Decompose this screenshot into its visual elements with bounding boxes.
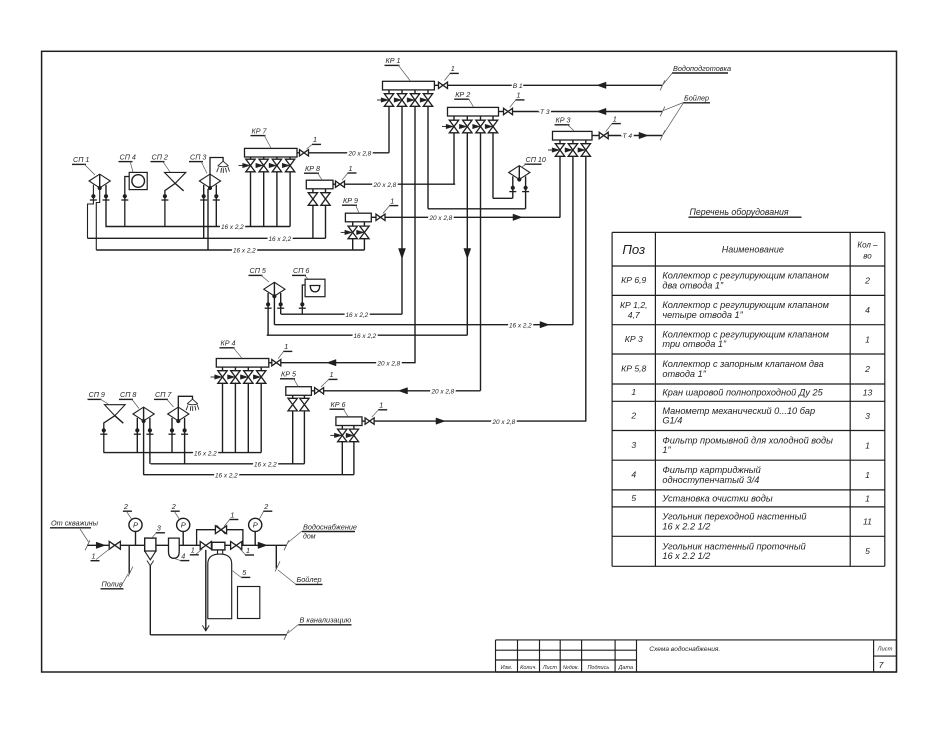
svg-text:Полив: Полив xyxy=(102,580,123,589)
svg-text:Кран шаровой полнопроходной Ду: Кран шаровой полнопроходной Ду 25 xyxy=(662,388,823,398)
svg-text:1: 1 xyxy=(230,510,234,519)
svg-text:1: 1 xyxy=(191,546,195,555)
svg-text:От скважины: От скважины xyxy=(51,519,99,528)
svg-text:№док.: №док. xyxy=(563,665,579,671)
svg-text:КР 8: КР 8 xyxy=(305,164,320,173)
svg-text:два отвода 1”: два отвода 1” xyxy=(662,281,724,291)
svg-text:3: 3 xyxy=(157,524,161,533)
svg-text:КР 3: КР 3 xyxy=(556,116,571,125)
svg-text:1: 1 xyxy=(390,196,394,205)
svg-text:13: 13 xyxy=(863,388,873,398)
svg-text:16 х 2,2: 16 х 2,2 xyxy=(215,472,238,479)
svg-text:1: 1 xyxy=(284,342,288,351)
svg-text:3: 3 xyxy=(631,440,636,450)
svg-text:СП 4: СП 4 xyxy=(120,152,136,161)
svg-text:P: P xyxy=(253,521,258,530)
svg-text:КР 6: КР 6 xyxy=(331,400,346,409)
svg-text:Изм.: Изм. xyxy=(501,665,513,671)
svg-text:1: 1 xyxy=(379,401,383,410)
svg-text:16 х 2.2 1/2: 16 х 2.2 1/2 xyxy=(662,551,710,561)
svg-text:4: 4 xyxy=(181,551,185,560)
svg-text:16 х 2.2 1/2: 16 х 2.2 1/2 xyxy=(662,521,710,531)
svg-text:4,7: 4,7 xyxy=(628,310,641,320)
svg-text:Т 3: Т 3 xyxy=(540,109,550,116)
svg-text:Установка очистки воды: Установка очистки воды xyxy=(661,493,772,503)
svg-text:КР 7: КР 7 xyxy=(252,126,268,135)
svg-text:1: 1 xyxy=(451,64,455,73)
svg-text:2: 2 xyxy=(864,364,870,374)
svg-text:P: P xyxy=(133,521,138,530)
svg-text:20 х 2,8: 20 х 2,8 xyxy=(429,215,453,222)
svg-text:5: 5 xyxy=(865,546,870,556)
svg-text:СП 7: СП 7 xyxy=(155,390,172,399)
svg-text:Коллектор с запорным клапаном: Коллектор с запорным клапаном два xyxy=(662,359,823,369)
svg-text:4: 4 xyxy=(631,469,636,479)
svg-text:Фильтр промывной для холодной: Фильтр промывной для холодной воды xyxy=(662,435,833,445)
svg-text:Подпись: Подпись xyxy=(587,665,609,671)
svg-text:P: P xyxy=(181,521,186,530)
svg-text:1: 1 xyxy=(517,91,521,100)
svg-text:2: 2 xyxy=(263,502,268,511)
svg-text:Угольник переходной настенный: Угольник переходной настенный xyxy=(661,512,806,522)
svg-text:1: 1 xyxy=(349,164,353,173)
svg-text:Угольник настенный проточный: Угольник настенный проточный xyxy=(661,541,805,551)
svg-text:одноступенчатый 3/4: одноступенчатый 3/4 xyxy=(662,475,759,485)
svg-text:Фильтр картриджный: Фильтр картриджный xyxy=(662,465,760,475)
svg-text:1: 1 xyxy=(631,387,636,397)
svg-text:дом: дом xyxy=(303,533,316,541)
svg-text:1: 1 xyxy=(865,334,870,344)
svg-text:Схема водоснабжения.: Схема водоснабжения. xyxy=(649,645,720,653)
svg-text:КР 1,2,: КР 1,2, xyxy=(620,300,648,310)
svg-text:отвода 1”: отвода 1” xyxy=(662,369,706,379)
svg-text:16 х 2,2: 16 х 2,2 xyxy=(254,462,277,469)
svg-text:КР 1: КР 1 xyxy=(386,56,401,65)
svg-text:1: 1 xyxy=(865,493,870,503)
svg-text:1”: 1” xyxy=(662,445,671,455)
svg-text:СП 8: СП 8 xyxy=(120,390,136,399)
svg-text:КР 4: КР 4 xyxy=(221,339,236,348)
svg-text:Бойлер: Бойлер xyxy=(297,575,322,584)
svg-text:20 х 2,8: 20 х 2,8 xyxy=(348,151,372,158)
svg-text:16 х 2,2: 16 х 2,2 xyxy=(269,236,292,243)
svg-text:1: 1 xyxy=(865,470,870,480)
svg-text:16 х 2,2: 16 х 2,2 xyxy=(221,224,244,231)
svg-text:5: 5 xyxy=(631,493,636,503)
svg-text:СП 6: СП 6 xyxy=(293,266,309,275)
svg-text:Лист: Лист xyxy=(877,647,893,653)
svg-text:20 х 2,8: 20 х 2,8 xyxy=(431,389,455,396)
svg-text:20 х 2,8: 20 х 2,8 xyxy=(492,419,516,426)
svg-text:КР 5: КР 5 xyxy=(281,370,297,379)
svg-text:Коллектор с регулирующим клапа: Коллектор с регулирующим клапаном xyxy=(662,271,829,281)
svg-text:16 х 2,2: 16 х 2,2 xyxy=(354,333,377,340)
svg-text:КР 2: КР 2 xyxy=(455,90,470,99)
svg-text:20 х 2,8: 20 х 2,8 xyxy=(377,360,401,367)
svg-text:СП 10: СП 10 xyxy=(526,155,546,164)
svg-text:G1/4: G1/4 xyxy=(662,416,682,426)
svg-text:СП 1: СП 1 xyxy=(73,155,89,164)
svg-text:четыре отвода 1”: четыре отвода 1” xyxy=(662,310,743,320)
svg-text:КР 5,8: КР 5,8 xyxy=(621,363,646,373)
svg-text:СП 5: СП 5 xyxy=(250,266,267,275)
svg-text:во: во xyxy=(863,252,872,261)
svg-text:три отвода 1”: три отвода 1” xyxy=(662,339,727,349)
svg-text:КР 9: КР 9 xyxy=(343,196,358,205)
svg-text:16 х 2,2: 16 х 2,2 xyxy=(346,312,369,319)
svg-text:Водоснабжение: Водоснабжение xyxy=(303,522,357,531)
svg-text:В канализацию: В канализацию xyxy=(300,616,352,625)
svg-text:3: 3 xyxy=(865,411,870,421)
svg-text:11: 11 xyxy=(863,517,872,527)
svg-text:1: 1 xyxy=(613,114,617,123)
svg-text:16 х 2,2: 16 х 2,2 xyxy=(509,322,532,329)
svg-text:2: 2 xyxy=(123,502,128,511)
svg-text:16 х 2,2: 16 х 2,2 xyxy=(194,450,217,457)
svg-text:Дата: Дата xyxy=(618,665,634,671)
svg-text:1: 1 xyxy=(313,135,317,144)
svg-text:СП 3: СП 3 xyxy=(190,152,206,161)
svg-text:Т 4: Т 4 xyxy=(623,133,633,140)
svg-text:20 х 2,8: 20 х 2,8 xyxy=(373,182,397,189)
svg-text:Кол –: Кол – xyxy=(857,241,878,250)
svg-text:Перечень оборудования: Перечень оборудования xyxy=(690,207,789,217)
svg-text:КР 6,9: КР 6,9 xyxy=(621,275,646,285)
svg-text:Водоподготовка: Водоподготовка xyxy=(673,64,731,73)
svg-text:Наименование: Наименование xyxy=(722,245,784,255)
svg-text:Колич.: Колич. xyxy=(520,665,537,671)
svg-text:2: 2 xyxy=(864,276,870,286)
svg-text:В 1: В 1 xyxy=(513,83,523,90)
svg-text:2: 2 xyxy=(630,410,636,420)
svg-text:Лист: Лист xyxy=(542,665,558,671)
svg-text:1: 1 xyxy=(330,370,334,379)
svg-text:Бойлер: Бойлер xyxy=(684,94,709,103)
svg-text:16 х 2,2: 16 х 2,2 xyxy=(233,248,256,255)
svg-text:СП 9: СП 9 xyxy=(89,390,105,399)
svg-text:КР 3: КР 3 xyxy=(625,334,643,344)
svg-text:1: 1 xyxy=(92,552,96,561)
svg-text:Поз: Поз xyxy=(622,242,645,257)
svg-text:Коллектор с регулирующим клапа: Коллектор с регулирующим клапаном xyxy=(662,329,829,339)
svg-text:Манометр механический 0...10: Манометр механический 0...10 бар xyxy=(662,406,815,416)
svg-text:2: 2 xyxy=(171,502,176,511)
svg-text:СП 2: СП 2 xyxy=(152,152,168,161)
svg-text:1: 1 xyxy=(246,546,250,555)
svg-text:Коллектор с регулирующим клапа: Коллектор с регулирующим клапаном xyxy=(662,300,829,310)
svg-text:4: 4 xyxy=(865,305,870,315)
svg-text:1: 1 xyxy=(865,440,870,450)
